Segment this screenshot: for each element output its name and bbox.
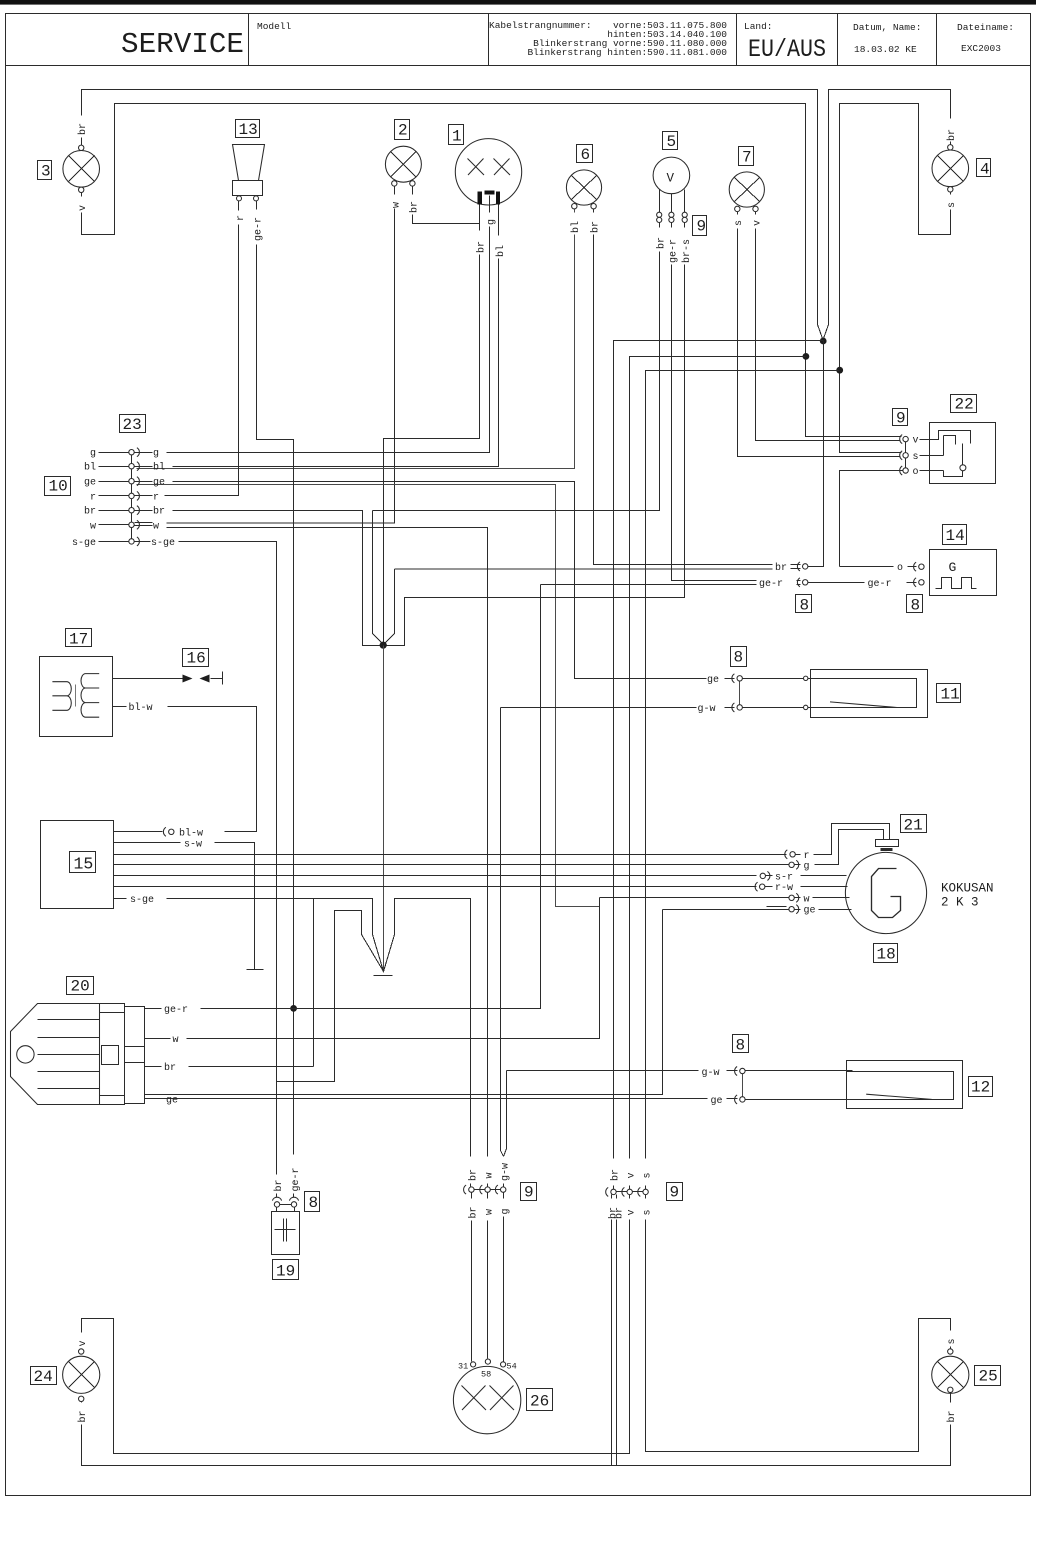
- wire comp15 s-ge stub: [114, 898, 127, 900]
- svg-text:8: 8: [736, 1037, 746, 1055]
- svg-text:br: br: [77, 123, 89, 135]
- svg-text:5: 5: [667, 133, 677, 151]
- label box 23: [120, 415, 146, 435]
- node C junction dot: [836, 367, 843, 374]
- wire regulator ge-r stub: [145, 1008, 162, 1010]
- wire voltmeter ge-r down to ge-r rail 580.1: [672, 223, 801, 581]
- svg-text:g: g: [501, 1208, 512, 1214]
- ground symbol bar at funnel: [374, 975, 393, 977]
- label box 1: [449, 125, 464, 146]
- wire right goalpost: left leg into ground, bar, br leg down to trio: [384, 899, 471, 1187]
- svg-text:br: br: [468, 1206, 480, 1218]
- wire comp11 g-w row and riser 500.3 down to trio circle: [501, 708, 735, 1187]
- label box 9 trio right: [667, 1183, 683, 1202]
- wire comp12 g-w row from riser 506.4: [507, 1070, 738, 1072]
- svg-text:Land:: Land:: [744, 21, 773, 32]
- svg-text:v: v: [78, 1340, 89, 1346]
- wire left goalpost: reg br riser up, top bar, right leg into ground: [314, 899, 384, 1067]
- svg-text:31: 31: [458, 1362, 468, 1372]
- wire dot A drop to br connector: [809, 341, 824, 567]
- connector trio left (tail light plug): [464, 1185, 506, 1194]
- svg-text:br: br: [77, 1410, 89, 1422]
- wire trio right below: v to rail 1453.9: [82, 1195, 630, 1454]
- wire comp11 ge label gap: [703, 678, 735, 680]
- svg-text:G: G: [949, 560, 957, 575]
- label box 8 at capacitor: [305, 1192, 320, 1213]
- svg-text:19: 19: [276, 1263, 295, 1281]
- svg-text:bl-w: bl-w: [129, 702, 153, 714]
- node ground junction dot at 645: [380, 642, 387, 649]
- svg-text:br: br: [468, 1169, 480, 1181]
- label box 8 at ge-r connector: [907, 595, 923, 615]
- wire ge-r rail 584.2 from riser 540.2 to ge-r connector: [541, 584, 801, 586]
- label box 2: [395, 120, 410, 140]
- wire rail341 from dot A left to drop at 613.7: [614, 341, 824, 1190]
- wire generator ge row from riser 662.6: [663, 907, 852, 910]
- svg-text:ge-r: ge-r: [291, 1167, 302, 1191]
- label box 12: [969, 1077, 993, 1097]
- svg-text:13: 13: [239, 121, 258, 139]
- wire lamp7 v to v-row lower: [756, 212, 901, 441]
- svg-text:ge: ge: [804, 906, 816, 917]
- svg-text:g-w: g-w: [702, 1068, 720, 1079]
- svg-text:9: 9: [896, 410, 906, 428]
- wire generator g to brush box 21: [795, 830, 884, 865]
- svg-text:Modell: Modell: [257, 21, 292, 32]
- label box 8 at comp11: [731, 647, 747, 667]
- node A junction dot: [820, 338, 827, 345]
- svg-text:w: w: [153, 521, 159, 532]
- svg-text:w: w: [173, 1035, 179, 1046]
- svg-text:br: br: [273, 1179, 285, 1191]
- label box 14: [943, 525, 967, 546]
- label box 10: [45, 477, 71, 496]
- generator pigtail connectors: [755, 850, 799, 914]
- svg-text:14: 14: [946, 527, 965, 545]
- label box 24: [31, 1367, 57, 1387]
- svg-text:s: s: [947, 202, 958, 208]
- svg-text:10: 10: [49, 478, 68, 496]
- svg-text:12: 12: [971, 1079, 990, 1097]
- svg-text:br: br: [946, 129, 958, 141]
- wire voltmeter three leads: [660, 190, 685, 213]
- svg-text:24: 24: [34, 1368, 53, 1386]
- svg-text:ge: ge: [707, 675, 719, 686]
- header table frame: [6, 14, 1031, 66]
- wire trio right link bar: [614, 1191, 646, 1193]
- svg-text:ge: ge: [711, 1096, 723, 1107]
- wire lamp6 br down to rail564 to br connector: [594, 209, 801, 565]
- horn 13: [233, 145, 265, 201]
- lamp 7 indicator tell-tale: [729, 172, 764, 212]
- wire lamp1 br left terminal down left down to ground dot: [384, 205, 480, 646]
- wire regulator br row to goalpost riser: [145, 1066, 314, 1068]
- svg-text:8: 8: [734, 649, 744, 667]
- svg-text:s: s: [913, 452, 919, 463]
- wire comp15 row r-w to generator: [114, 886, 757, 888]
- wire comp12 pins to box: [745, 1071, 853, 1100]
- label box 25: [975, 1366, 1001, 1386]
- wire ge-r row from regulator over dot to riser 540.2: [201, 585, 541, 1009]
- wire lamp3 bottom v down right up rail y103.6 to dot B then v-row upper: [82, 104, 902, 437]
- svg-text:7: 7: [742, 149, 752, 167]
- svg-text:11: 11: [941, 686, 960, 704]
- svg-text:25: 25: [979, 1368, 998, 1386]
- svg-text:r: r: [153, 492, 159, 503]
- svg-text:v: v: [627, 1172, 638, 1178]
- wire generator w row: [795, 897, 850, 899]
- svg-text:Blinkerstrang hinten:590.11.08: Blinkerstrang hinten:590.11.081.000: [527, 47, 727, 58]
- wire spark plug lead from coil: [113, 678, 183, 680]
- svg-text:g-w: g-w: [501, 1163, 512, 1181]
- connector pins br / ge-r rows: [797, 562, 808, 587]
- svg-text:br: br: [610, 1169, 622, 1181]
- svg-text:8: 8: [800, 597, 810, 615]
- spark gap 16 arrows: [183, 675, 210, 683]
- svg-text:ge-r: ge-r: [868, 579, 892, 590]
- wire trio right below: s to rail 1451.8 to lamp25: [646, 1195, 951, 1452]
- svg-text:ge-r: ge-r: [759, 579, 783, 590]
- brush holder 21: [876, 840, 899, 850]
- wire lamp3 top br to rail y90 to V-merge dot A: [82, 90, 823, 339]
- svg-text:s-ge: s-ge: [151, 538, 175, 549]
- lamp 1 headlight: [455, 139, 521, 205]
- svg-text:ge-r: ge-r: [254, 217, 265, 241]
- svg-text:g: g: [90, 449, 96, 460]
- svg-text:17: 17: [69, 631, 88, 649]
- svg-text:br: br: [946, 1410, 958, 1422]
- svg-text:21: 21: [904, 817, 923, 835]
- svg-text:s: s: [643, 1172, 654, 1178]
- wire comp12 g-w riser from comp11 g-w row merge: [504, 1071, 507, 1157]
- svg-text:br: br: [409, 201, 421, 213]
- svg-text:r-w: r-w: [775, 883, 793, 894]
- svg-text:2: 2: [398, 122, 408, 140]
- label box 4: [977, 159, 991, 179]
- svg-text:V: V: [667, 172, 675, 186]
- svg-text:bl: bl: [153, 462, 165, 474]
- wire s-ge column from connector 23 down to capacitor br: [179, 542, 277, 1198]
- light switch 22: [920, 423, 996, 484]
- svg-text:26: 26: [530, 1393, 549, 1411]
- wire w-row line3 to drop 487.6 down to tail lamp pin 58: [167, 528, 488, 1187]
- wire generator r to brush box 21: [796, 824, 890, 855]
- wire br rail 569.2 from 396 to br connector: [394, 568, 800, 570]
- wire generator w riser down to regulator w row + jog: [145, 898, 789, 1039]
- svg-text:9: 9: [697, 218, 707, 236]
- connector pins at comp 14: [914, 562, 925, 587]
- wire horn r down to row r: [165, 201, 239, 496]
- wire trio left below: br w g to tail lamp: [472, 1193, 504, 1362]
- label box 18: [874, 944, 898, 964]
- wire spark gap electrode line and bar: [211, 672, 223, 685]
- wire rail356 from dot B left to v drop at 629.7: [630, 357, 806, 1190]
- connector pair at comp 12: [735, 1067, 746, 1104]
- wire inner goalpost: cap ground link up, bar, leg into ground: [277, 911, 384, 1082]
- wire coil 17 bl-w stub: [113, 706, 127, 708]
- label box 6: [577, 145, 593, 165]
- wire row br to drop 362.3 into ground horizontal: [173, 223, 685, 646]
- label box 21: [901, 815, 927, 835]
- svg-text:w: w: [485, 1172, 496, 1178]
- wire ge-r connector to comp14 ge-r pin: [808, 582, 917, 584]
- svg-text:Datum, Name:: Datum, Name:: [853, 22, 921, 33]
- wire lamp4 top br to rail y90 right to V-merge dot A: [824, 90, 951, 339]
- regulator 20 body: [11, 1004, 145, 1105]
- label box 8 at br connector: [796, 595, 812, 615]
- wire trio left link bar: [472, 1189, 504, 1191]
- svg-text:br: br: [590, 221, 602, 233]
- connector 23 pin circles: [129, 448, 140, 546]
- wire trio right below: br double: [612, 1195, 617, 1466]
- connector 9 pins at switch 22: [900, 435, 909, 475]
- label box 16: [183, 649, 209, 668]
- svg-text:br-s: br-s: [681, 239, 693, 263]
- label box 26: [527, 1389, 553, 1411]
- svg-text:bl: bl: [84, 462, 96, 474]
- svg-text:o: o: [913, 467, 919, 478]
- node B junction dot: [803, 353, 810, 360]
- svg-text:r: r: [236, 215, 247, 221]
- label box 9 trio left: [521, 1183, 537, 1202]
- wire capacitor link bar and stubs: [277, 1205, 295, 1212]
- wire comp15 row bl-w with connector and to coil riser: [114, 707, 257, 832]
- voltmeter U5: [653, 157, 690, 222]
- label box 7: [739, 147, 754, 167]
- svg-text:8: 8: [911, 597, 921, 615]
- svg-text:16: 16: [187, 650, 206, 668]
- svg-text:w: w: [90, 521, 96, 532]
- wire comp22 o pin to comp14 o pin via drop 839.4: [840, 471, 903, 567]
- svg-text:2 K 3: 2 K 3: [941, 896, 979, 910]
- wire lamp4 bottom s down left up rail right to dot C then s-row upper: [840, 104, 951, 453]
- svg-text:w: w: [392, 202, 403, 208]
- wire V2 drop from rail510 to ground dot: [373, 511, 384, 645]
- CDI unit 15: [41, 821, 114, 909]
- svg-text:s: s: [643, 1209, 654, 1215]
- wire ground dot down to chassis ground: [383, 646, 385, 973]
- svg-text:br: br: [84, 506, 96, 518]
- wire bottom br rail lamp24 to lamp25: [82, 1393, 951, 1466]
- top black bar: [0, 0, 1036, 5]
- wire comp11 pins to box: [742, 679, 830, 708]
- svg-text:v: v: [753, 220, 764, 226]
- svg-text:s-r: s-r: [775, 872, 793, 883]
- lamp 2 parking light: [385, 146, 421, 186]
- lamp 3 front left indicator: [63, 145, 100, 192]
- svg-text:58: 58: [481, 1370, 491, 1380]
- svg-text:20: 20: [71, 978, 90, 996]
- svg-text:g-w: g-w: [698, 704, 716, 715]
- svg-text:9: 9: [524, 1184, 534, 1202]
- svg-text:18: 18: [877, 946, 896, 964]
- svg-text:v: v: [78, 205, 89, 211]
- brake light switch 11: [804, 670, 928, 718]
- svg-text:r: r: [804, 851, 810, 862]
- svg-text:bl: bl: [570, 221, 582, 233]
- svg-text:4: 4: [980, 161, 990, 179]
- label box 9 at switch: [893, 409, 908, 428]
- svg-text:9: 9: [670, 1184, 680, 1202]
- svg-text:w: w: [804, 894, 810, 905]
- wire comp15 row r to generator: [114, 854, 787, 856]
- svg-text:br: br: [476, 241, 488, 253]
- wire w-row line2 down via 396 to br rail 569.2 and ground dot: [384, 569, 395, 645]
- wire comp12 connector link: [742, 1074, 744, 1097]
- svg-text:23: 23: [123, 416, 142, 434]
- label box 17: [66, 629, 92, 649]
- wire comp15 s-ge row to ground goalpost: [167, 898, 314, 900]
- label box 20: [67, 977, 94, 996]
- wire regulator ge row lower to comp12 ge connector: [145, 1098, 738, 1100]
- label box 22: [951, 395, 977, 414]
- label box 8 at comp12: [733, 1035, 749, 1055]
- wire lamp2 w down to w-row1: [167, 187, 395, 524]
- svg-text:Dateiname:: Dateiname:: [957, 22, 1014, 33]
- svg-text:ge-r: ge-r: [164, 1005, 188, 1016]
- generator 18: [845, 852, 926, 933]
- svg-text:s-ge: s-ge: [72, 538, 96, 549]
- wire row bl second line to lamp6 bl: [137, 209, 575, 469]
- svg-text:ge-r: ge-r: [669, 239, 680, 263]
- wire comp15 row g to generator: [114, 864, 789, 866]
- connector pair at comp 11: [732, 674, 743, 712]
- svg-text:br: br: [656, 237, 668, 249]
- lamp 24 rear left indicator: [63, 1349, 100, 1402]
- svg-text:r: r: [90, 492, 96, 503]
- svg-text:br: br: [153, 506, 165, 518]
- svg-text:br: br: [614, 1207, 626, 1219]
- wire row ge second line drop 555.5 jog to w-drop: [137, 485, 600, 907]
- label box 5: [663, 132, 678, 152]
- wire rail370 from dot C left to s drop at 645.6: [646, 371, 840, 1190]
- svg-text:8: 8: [309, 1194, 319, 1212]
- wire row ge to comp11 ge via drop 574.8: [173, 482, 735, 679]
- svg-text:s-ge: s-ge: [130, 895, 154, 906]
- ground symbol bar s-w: [247, 969, 264, 971]
- wire connector23 left stubs: [99, 453, 129, 542]
- svg-text:w: w: [485, 1209, 496, 1215]
- wire lamp1 bl right terminal down to row bl: [173, 205, 499, 467]
- capacitor 19: [272, 1197, 300, 1254]
- svg-text:6: 6: [581, 146, 591, 164]
- wire comp11 connector link: [739, 681, 741, 705]
- wire generator ge riser down to regulator ge row upper: [145, 910, 663, 1095]
- CDI trigger unit 14: [930, 550, 997, 596]
- label box 13: [236, 120, 260, 140]
- wire connector23 link bar: [131, 453, 133, 542]
- wire comp15 row s-r to generator: [114, 875, 757, 877]
- wire generator r-w row right of circle: [765, 886, 848, 888]
- svg-text:ge: ge: [153, 478, 165, 489]
- svg-text:bl-w: bl-w: [179, 827, 203, 839]
- svg-text:s: s: [947, 1338, 958, 1344]
- label box 9 voltmeter: [693, 216, 707, 236]
- svg-text:54: 54: [507, 1362, 517, 1372]
- wire lamp7 s to s-row lower: [738, 212, 901, 457]
- lamp 25 rear right indicator: [932, 1349, 969, 1394]
- svg-text:15: 15: [74, 855, 94, 874]
- svg-text:br: br: [775, 562, 787, 574]
- wire comp15 row s-w to ground: [114, 843, 255, 970]
- svg-text:g: g: [804, 861, 810, 872]
- wire br connector to comp14 area label o: [808, 566, 917, 568]
- svg-text:s: s: [734, 220, 745, 226]
- svg-text:g: g: [153, 449, 159, 460]
- node ge-r row junction dot: [290, 1005, 297, 1012]
- label box 11: [937, 684, 961, 704]
- svg-text:EU/AUS: EU/AUS: [748, 35, 826, 64]
- connector trio right (rear indicators plug): [606, 1187, 649, 1196]
- connector circles comp15 row1: [163, 827, 174, 836]
- lamp 4 front right indicator: [932, 145, 969, 192]
- ignition coil 17: [40, 657, 113, 737]
- svg-text:ge: ge: [84, 478, 96, 489]
- svg-text:v: v: [913, 436, 919, 447]
- svg-text:br: br: [164, 1062, 176, 1074]
- svg-text:EXC2003: EXC2003: [961, 43, 1001, 54]
- svg-text:22: 22: [955, 396, 974, 414]
- svg-text:18.03.02 KE: 18.03.02 KE: [854, 44, 917, 55]
- svg-text:SERVICE: SERVICE: [121, 28, 244, 61]
- wire horn ge-r down right and drop 293.6 to capacitor ge-r: [257, 201, 294, 1198]
- svg-text:KOKUSAN: KOKUSAN: [941, 882, 994, 896]
- svg-text:s-w: s-w: [184, 839, 202, 850]
- label box 3: [38, 161, 52, 181]
- svg-text:g: g: [487, 219, 498, 225]
- wire generator s-r row right of circle: [766, 875, 847, 877]
- svg-text:1: 1: [452, 128, 462, 146]
- brake light switch 12: [847, 1061, 963, 1109]
- lamp 6 high beam tell-tale: [566, 170, 601, 209]
- tail light 26: [453, 1359, 520, 1434]
- wire lamp1 g middle terminal down to row g: [167, 196, 490, 453]
- wire rail510 right part to voltmeter br: [373, 223, 660, 511]
- wire lamp2 br jog to lamp1 br: [412, 187, 479, 224]
- wire connector23 row label gaps right side: [135, 453, 153, 542]
- svg-text:o: o: [897, 563, 903, 574]
- svg-text:v: v: [627, 1209, 638, 1215]
- svg-text:3: 3: [41, 163, 51, 181]
- svg-text:ge: ge: [166, 1095, 178, 1106]
- svg-text:Kabelstrangnummer:: Kabelstrangnummer:: [489, 20, 592, 31]
- svg-text:bl: bl: [495, 245, 507, 257]
- label box 19: [273, 1260, 299, 1281]
